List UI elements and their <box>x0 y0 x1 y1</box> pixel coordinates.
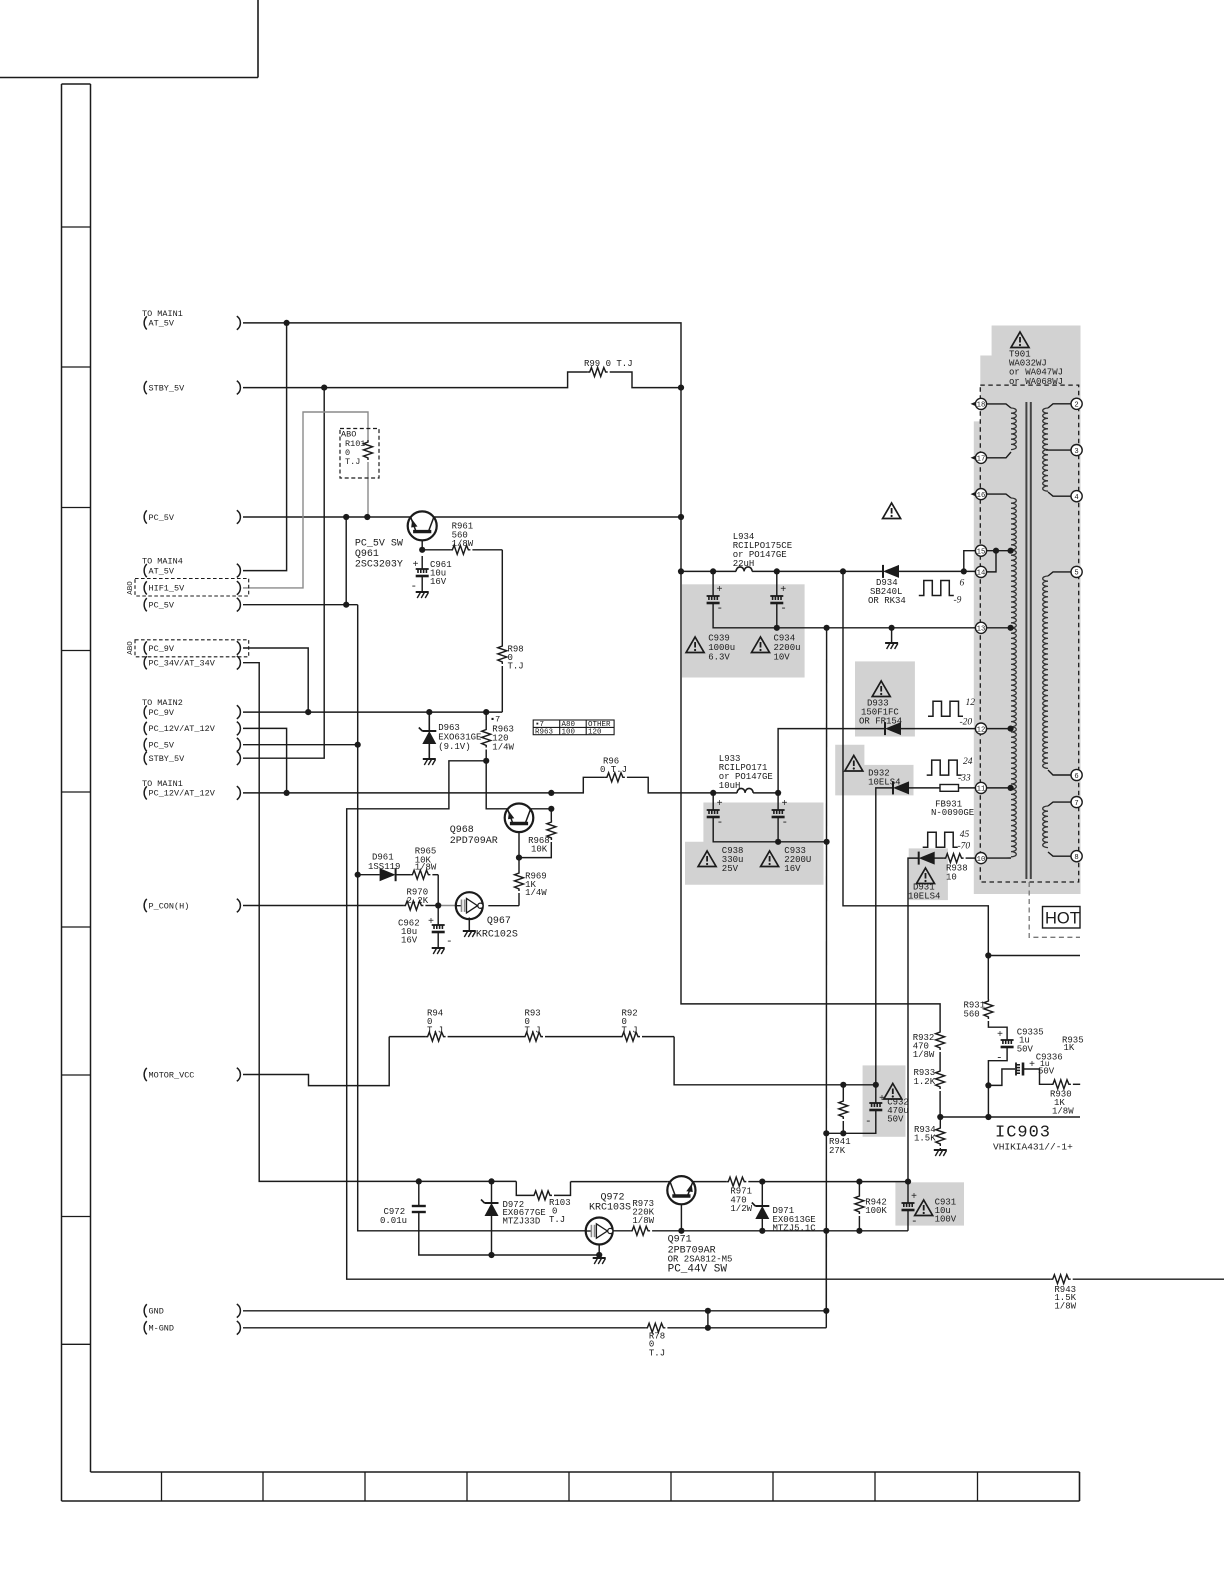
wire R941 bottom <box>842 1121 844 1133</box>
svg-text:13: 13 <box>977 626 986 634</box>
capacitor C9335 <box>1001 1039 1014 1041</box>
wire emitter gnd bus <box>419 1212 599 1255</box>
transformer T901 dashed outline <box>980 385 1078 882</box>
resistor R98 <box>498 644 507 664</box>
svg-text:T.J: T.J <box>549 1215 565 1225</box>
svg-text:-: - <box>865 1116 872 1128</box>
resistor R941 <box>839 1099 848 1119</box>
svg-text:-: - <box>780 603 787 615</box>
wire R969 branch <box>518 858 520 871</box>
svg-text:ABO: ABO <box>127 641 135 655</box>
wire D971 stem top <box>761 1182 763 1206</box>
svg-text:TO MAIN1: TO MAIN1 <box>142 779 183 789</box>
svg-text:-33: -33 <box>958 774 971 784</box>
pin stub tick <box>971 492 976 496</box>
junction at 707.9,1310.8 <box>705 1308 711 1314</box>
svg-text:HIF1_5V: HIF1_5V <box>149 584 186 594</box>
wire Q972 emitter stem <box>598 1245 600 1259</box>
wire L934 line continue <box>899 570 975 572</box>
svg-text:8: 8 <box>1074 854 1078 862</box>
wire C962 stem <box>437 906 439 926</box>
wire R973 in <box>613 1230 630 1232</box>
svg-text:560: 560 <box>964 1009 980 1019</box>
capacitor C938 <box>707 809 720 811</box>
transformer core <box>1025 402 1027 879</box>
svg-text:14: 14 <box>977 570 986 578</box>
connector (P_CON(H) <box>237 899 241 913</box>
svg-text:10ELS4: 10ELS4 <box>868 778 900 788</box>
page title block corner <box>0 77 258 79</box>
svg-text:12: 12 <box>966 698 976 708</box>
wire R963 staircase left <box>347 761 1051 1279</box>
junction at 826.3,1310.8 <box>823 1308 829 1314</box>
wire PC_9V line <box>243 711 502 713</box>
svg-text:+: + <box>1029 1060 1035 1071</box>
svg-text:2.2K: 2.2K <box>407 896 429 906</box>
svg-text:3: 3 <box>1074 448 1078 456</box>
pin stub tick <box>971 456 976 460</box>
svg-text:-: - <box>911 1216 918 1228</box>
svg-text:N-0090GE: N-0090GE <box>931 808 974 818</box>
connector (STBY_5V <box>237 751 241 765</box>
svg-text:D961: D961 <box>372 852 394 862</box>
transistor Q961 <box>408 511 437 540</box>
svg-text:-9: -9 <box>954 596 962 606</box>
svg-text:1.5K: 1.5K <box>914 1134 936 1144</box>
svg-text:OR FR154: OR FR154 <box>859 716 902 726</box>
svg-text:PC_5V: PC_5V <box>149 601 175 611</box>
resistor R93 <box>523 1032 543 1041</box>
svg-text:MTZJ33D: MTZJ33D <box>503 1216 541 1226</box>
wire PC_5V rail <box>243 516 681 518</box>
svg-text:PC_9V: PC_9V <box>149 644 175 654</box>
svg-text:R963: R963 <box>535 728 554 736</box>
junction at 963.8,571.4 <box>961 568 967 574</box>
junction at 486.2,712.1 <box>483 709 489 715</box>
wire C972 stem <box>418 1181 420 1206</box>
squarewave 12/-20 <box>928 701 963 716</box>
wire R968 branch <box>550 809 552 820</box>
junction at 551.3,792.9 <box>548 790 554 796</box>
junction at 988.3,955.5 <box>985 952 991 958</box>
wire R963 branch <box>485 712 487 727</box>
junction at 491.5,1181.4 <box>488 1178 494 1184</box>
inductor L934 <box>736 567 752 572</box>
svg-text:T.J: T.J <box>525 1025 541 1035</box>
bottom margin zone strip <box>91 1471 1080 1473</box>
junction at 713.2,792.9 <box>710 790 716 796</box>
svg-text:PC_9V: PC_9V <box>149 708 175 718</box>
wire M-GND to GND strap <box>707 1311 709 1328</box>
junction at 843,571.4 <box>840 568 846 574</box>
junction at 891.6,627.8 <box>889 625 895 631</box>
squarewave 6/-9 <box>919 581 954 596</box>
wire hot sense line <box>988 955 1080 957</box>
junction at 357.7,744.7 <box>355 742 361 748</box>
transformer shaded block <box>974 326 1081 895</box>
wire GND vertical lower <box>825 1231 827 1311</box>
svg-text:16: 16 <box>977 492 986 500</box>
svg-text:-20: -20 <box>960 718 973 728</box>
junction at 681,571.4 <box>678 568 684 574</box>
diode D931 <box>918 852 920 865</box>
svg-text:2SC3203Y: 2SC3203Y <box>355 560 403 571</box>
hot-cold dashed boundary <box>1029 882 1080 937</box>
wire C9336 to R930 <box>1024 1069 1051 1084</box>
wire pin13 coil tap <box>987 627 1011 629</box>
wire L933 riser to D933 <box>778 729 885 793</box>
primary winding P2 <box>987 494 1011 498</box>
junction at 519,857.6 <box>516 855 522 861</box>
wire pin15 line <box>987 550 1011 552</box>
wire D971 stem bottom <box>761 1219 763 1231</box>
svg-text:(9.1V): (9.1V) <box>438 742 470 752</box>
resistor R969 <box>515 871 524 891</box>
junction at 346.2,604.7 <box>343 602 349 608</box>
junction at 681,517 <box>678 514 684 520</box>
svg-text:KRC102S: KRC102S <box>476 930 518 941</box>
junction at 429.3,712.1 <box>426 709 432 715</box>
junction at 324.2,387.6 <box>321 385 327 391</box>
svg-text:10K: 10K <box>531 845 548 855</box>
junction at 776.8,627.8 <box>774 625 780 631</box>
junction at 826.3,1230.8 <box>823 1228 829 1234</box>
wire C932 bottom link <box>826 1110 876 1133</box>
junction at 599.2,1255 <box>596 1252 602 1258</box>
ABO dashed box PC_9V <box>135 640 249 657</box>
wire R971 line right <box>762 1181 908 1183</box>
wire R931 to C9335 jog <box>988 1021 1007 1040</box>
svg-text:100: 100 <box>562 728 576 736</box>
svg-text:OR RK34: OR RK34 <box>868 596 906 606</box>
junction at 826.3,1133.3 <box>823 1130 829 1136</box>
capacitor C9336 <box>1015 1063 1017 1076</box>
standalone warning triangle <box>883 503 901 519</box>
transistor Q971 <box>667 1176 695 1204</box>
wire M-GND line <box>243 1327 645 1329</box>
wire PC_34V/AT_34V rail <box>243 663 516 1182</box>
svg-text:MTZJ5.1C: MTZJ5.1C <box>773 1223 817 1233</box>
svg-text:120: 120 <box>588 728 602 736</box>
wire R942 bottom <box>858 1216 860 1231</box>
wire R963 to Q968 <box>486 761 551 809</box>
wire C933 lower stem <box>777 817 779 842</box>
wire D972 bottom stem <box>491 1216 493 1255</box>
svg-text:PC_44V SW: PC_44V SW <box>668 1264 728 1276</box>
svg-text:100V: 100V <box>935 1214 957 1224</box>
wire R930 tail <box>1073 1083 1080 1085</box>
junction at 418.8,1181.4 <box>416 1178 422 1184</box>
transistor Q972 <box>586 1218 613 1245</box>
svg-text:1/8W: 1/8W <box>1052 1107 1074 1117</box>
svg-text:1K: 1K <box>1064 1043 1075 1053</box>
wire vertical PC5V link <box>345 517 347 605</box>
junction at 843.3,1133.3 <box>840 1130 846 1136</box>
C931 shaded box <box>895 1182 964 1225</box>
transformer pin 10 <box>975 853 986 864</box>
capacitor C931 <box>902 1202 915 1204</box>
svg-text:17: 17 <box>977 456 986 464</box>
resistor R963 <box>482 728 491 748</box>
connector (STBY_5V <box>237 381 241 395</box>
wire C933 stem <box>777 793 779 810</box>
left margin zone strip <box>61 84 63 1501</box>
svg-text:1.2K: 1.2K <box>914 1077 936 1087</box>
ground for R934 <box>934 1149 947 1151</box>
C933 warning+label <box>761 851 779 867</box>
svg-text:1/4W: 1/4W <box>525 888 547 898</box>
wire D931 branch <box>908 858 919 1182</box>
secondary winding S3 <box>1048 802 1071 806</box>
wire C932 stem <box>875 1085 877 1103</box>
svg-text:VHIKIA431//-1+: VHIKIA431//-1+ <box>993 1142 1073 1153</box>
junction at 1010.6,728.6 <box>1008 726 1014 732</box>
junction at 988.4,1085.4 <box>985 1082 991 1088</box>
svg-text:+: + <box>428 917 434 928</box>
transformer pin 18 <box>975 398 986 409</box>
wire STBY_5V with R99 jog <box>243 372 588 388</box>
D932 shaded box <box>835 745 913 796</box>
wire FB931 line <box>909 787 941 789</box>
svg-text:-: - <box>717 817 724 829</box>
wire GND line <box>243 1310 826 1312</box>
inductor L933 <box>737 788 753 793</box>
wire R938 to pin10 <box>966 857 976 859</box>
connector (HIF1_5V <box>237 581 241 595</box>
secondary winding S1 tap pin3 <box>1046 449 1071 451</box>
transformer pin 7 <box>1071 797 1082 808</box>
resistor R968 <box>547 820 556 840</box>
wire C938 stem <box>712 793 714 810</box>
ground for D963 <box>423 758 436 760</box>
resistor R78 <box>645 1323 665 1332</box>
ABO dashed box HIF1_5V <box>135 579 249 597</box>
wire D932 branch <box>876 788 893 1085</box>
svg-text:4: 4 <box>1074 494 1078 502</box>
D933 warning+label <box>872 681 890 697</box>
wire R94-R93-R92 chain line <box>389 1036 425 1038</box>
wire gnd tap stem <box>891 628 893 643</box>
ferrite bead FB931 <box>940 785 959 792</box>
svg-text:1SS119: 1SS119 <box>368 862 400 872</box>
svg-text:T.J: T.J <box>427 1025 443 1035</box>
wire D934 bus route <box>843 571 988 955</box>
junction at 357.7,874.7 <box>355 872 361 878</box>
diode D961 <box>395 868 397 881</box>
svg-text:+: + <box>911 1192 917 1203</box>
zener D963 <box>428 712 430 731</box>
ground for C962 <box>432 947 445 949</box>
svg-text:1/8W: 1/8W <box>913 1050 935 1060</box>
C938 warning+label <box>698 851 716 867</box>
primary winding P1 <box>987 404 1011 408</box>
transformer pin 8 <box>1071 851 1082 862</box>
junction at 286.6,792.9 <box>284 790 290 796</box>
resistor R92 <box>620 1032 640 1041</box>
HOT label box <box>1043 907 1081 929</box>
connector (PC_5V <box>237 598 241 612</box>
wire IC903 cathode line <box>940 1116 1080 1118</box>
svg-text:T.J: T.J <box>508 662 524 672</box>
capacitor C962 <box>432 924 445 926</box>
diode D933 <box>884 722 886 735</box>
secondary winding S1 <box>1048 404 1071 408</box>
resistor R943 <box>1051 1275 1071 1284</box>
svg-text:STBY_5V: STBY_5V <box>149 754 186 764</box>
D933 shaded box <box>855 661 915 736</box>
connector (MOTOR_VCC <box>237 1068 241 1082</box>
junction at 707.9,1327.8 <box>705 1325 711 1331</box>
svg-text:2PD709AR: 2PD709AR <box>450 836 498 847</box>
resistor R101 <box>364 440 373 460</box>
svg-text:T.J: T.J <box>649 1348 665 1358</box>
wire STBY_5V second riser <box>243 388 324 759</box>
svg-text:-: - <box>446 936 453 948</box>
capacitor C934 <box>770 595 783 597</box>
pin stub tick <box>971 402 976 406</box>
junction at 286.6,322.9 <box>284 320 290 326</box>
connector (AT_5V <box>237 564 241 578</box>
svg-text:IC903: IC903 <box>995 1124 1051 1143</box>
svg-text:1000u: 1000u <box>708 643 735 653</box>
C938 C933 shaded box <box>685 803 824 885</box>
svg-text:7: 7 <box>1074 800 1078 808</box>
connector (PC_12V/AT_12V <box>237 786 241 800</box>
svg-text:Q968: Q968 <box>450 825 474 836</box>
wire base bus <box>652 1230 908 1232</box>
svg-text:PC_5V SW: PC_5V SW <box>355 539 403 550</box>
D932 warning+label <box>845 756 863 772</box>
svg-text:1/4W: 1/4W <box>492 743 514 753</box>
transformer pin 2 <box>1071 398 1082 409</box>
wire Q961 base branch <box>421 533 423 550</box>
wire C931 bottom corner <box>907 1210 909 1231</box>
svg-text:100K: 100K <box>865 1206 887 1216</box>
svg-text:Q971: Q971 <box>668 1235 692 1246</box>
svg-text:10ELS4: 10ELS4 <box>908 892 940 902</box>
transformer pin 14 <box>975 566 986 577</box>
svg-text:+: + <box>717 585 723 596</box>
svg-text:PC_34V/AT_34V: PC_34V/AT_34V <box>149 659 216 669</box>
wire Q967 base gray <box>438 905 456 907</box>
wire C931 top stem <box>907 1182 909 1203</box>
D931 shaded box <box>909 848 948 900</box>
wire L933 left gap fix <box>713 792 737 794</box>
resistor R103 <box>532 1191 552 1200</box>
svg-text:D963: D963 <box>438 723 460 733</box>
wire pin14 strap <box>987 551 996 572</box>
svg-text:STBY_5V: STBY_5V <box>149 383 186 393</box>
resistor R932 <box>936 1030 945 1050</box>
wire D961 R965 line <box>358 874 380 876</box>
svg-text:6: 6 <box>1074 773 1078 781</box>
svg-text:0.01u: 0.01u <box>380 1216 407 1226</box>
svg-text:C934: C934 <box>774 634 796 644</box>
resistor R970 <box>403 901 423 910</box>
junction at 438.2,905.5 <box>435 902 441 908</box>
wire C938 C933 bus <box>713 817 826 842</box>
svg-text:-: - <box>717 603 724 615</box>
svg-text:2200u: 2200u <box>774 643 801 653</box>
svg-text:TO MAIN1: TO MAIN1 <box>142 309 183 319</box>
resistor R933 <box>936 1069 945 1089</box>
wire M-GND corner up <box>825 1311 827 1328</box>
ground on secondary bus <box>885 642 898 644</box>
svg-text:M-GND: M-GND <box>149 1324 175 1334</box>
svg-text:1/8W: 1/8W <box>452 539 474 549</box>
svg-text:22uH: 22uH <box>733 559 755 569</box>
junction at 367.3,517 <box>364 514 370 520</box>
wire PC_5V third <box>243 744 358 746</box>
wire pin12 coil tap <box>987 728 1011 730</box>
resistor R965 <box>410 870 430 879</box>
junction at 940.3,1117 <box>937 1114 943 1120</box>
junction at 826.6,841.8 <box>824 839 830 845</box>
junction at 551.3,808.8 <box>548 806 554 812</box>
junction at 1010.6,627.8 <box>1008 625 1014 631</box>
capacitor C933 <box>772 809 785 811</box>
svg-text:1/2W: 1/2W <box>730 1204 752 1214</box>
transformer pin 6 <box>1071 769 1082 780</box>
wire C939 stem <box>712 571 714 596</box>
resistor R938 <box>944 854 964 863</box>
connector (PC_9V <box>237 641 241 655</box>
diode D932 <box>892 781 894 794</box>
wire AT_5V to-main4 riser <box>243 323 287 571</box>
svg-text:1/8W: 1/8W <box>632 1216 654 1226</box>
R963 value table <box>533 720 614 735</box>
svg-text:6.3V: 6.3V <box>708 653 730 663</box>
svg-text:10V: 10V <box>774 653 791 663</box>
svg-text:AT_5V: AT_5V <box>149 566 175 576</box>
zener D972 <box>485 1202 499 1204</box>
ground for Q967 <box>463 930 476 932</box>
svg-text:+: + <box>413 560 419 571</box>
svg-text:AT_5V: AT_5V <box>149 319 175 329</box>
svg-text:ABO: ABO <box>341 430 356 440</box>
junction at 875.8,1084.8 <box>873 1082 879 1088</box>
wire R931 branch <box>987 956 989 1000</box>
svg-text:Q967: Q967 <box>487 916 511 927</box>
svg-text:1/8W: 1/8W <box>1054 1302 1076 1312</box>
C931 warning+label <box>915 1200 933 1216</box>
ground for Q972 <box>593 1257 606 1259</box>
svg-text:T.J: T.J <box>622 1025 638 1035</box>
svg-text:45: 45 <box>960 830 970 840</box>
connector (AT_5V <box>237 316 241 330</box>
wire Q971 base stem <box>680 1197 682 1231</box>
junction at 491.5,1255 <box>488 1252 494 1258</box>
wire GND long vertical <box>825 628 827 1311</box>
wire D933 to pin12 <box>901 728 975 730</box>
wire R941 branch <box>842 1085 844 1099</box>
junction at 778.1,792.9 <box>775 790 781 796</box>
transistor Q967 <box>456 892 483 919</box>
resistor R99 <box>588 368 608 377</box>
wire FB931 to pin11 <box>959 787 976 789</box>
transformer pin 16 <box>975 489 986 500</box>
resistor R942 <box>855 1194 864 1214</box>
junction at 1010.6,787.9 <box>1008 785 1014 791</box>
capacitor C961 <box>416 568 429 570</box>
svg-text:16V: 16V <box>430 577 447 587</box>
junction at 308.2,712.1 <box>305 709 311 715</box>
wire Q967 out to R969 <box>488 905 519 907</box>
svg-text:24: 24 <box>963 757 973 767</box>
svg-text:+: + <box>782 799 788 810</box>
wire C934 lower stem <box>776 603 778 628</box>
resistor R930 <box>1051 1080 1071 1089</box>
